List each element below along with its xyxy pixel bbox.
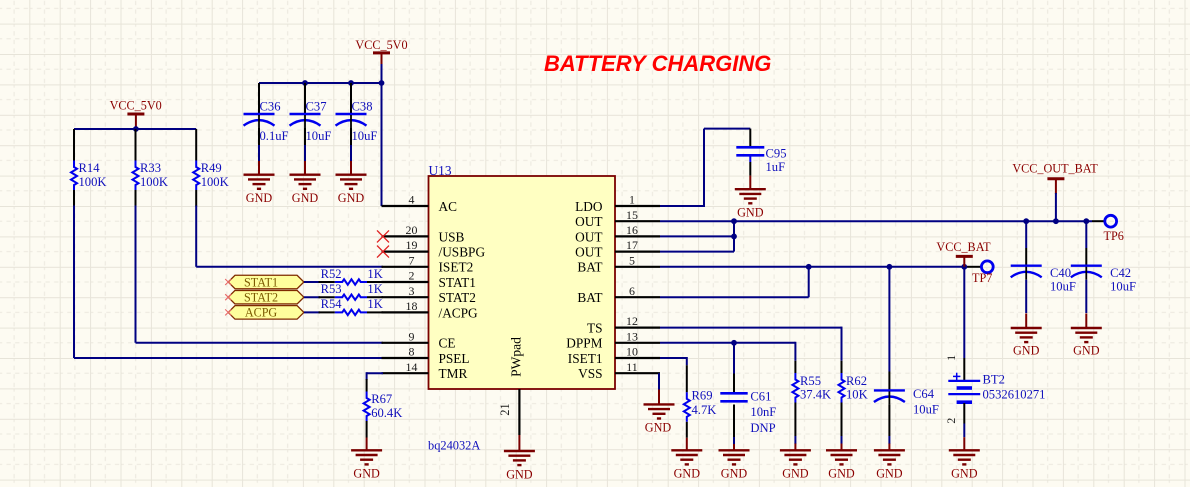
- svg-text:19: 19: [406, 238, 418, 252]
- wire R14 to PSEL pin 8: [74, 206, 383, 359]
- svg-text:VCC_BAT: VCC_BAT: [936, 240, 991, 254]
- svg-text:TP7: TP7: [972, 271, 992, 285]
- svg-text:GND: GND: [246, 191, 273, 205]
- svg-text:STAT2: STAT2: [244, 291, 278, 305]
- wire C95 top: [749, 129, 751, 148]
- svg-text:TMR: TMR: [439, 366, 468, 381]
- ground C61: [719, 444, 750, 481]
- junction C61/DPPM: [731, 340, 737, 346]
- wire C38 top: [350, 83, 352, 114]
- svg-text:C37: C37: [306, 100, 327, 114]
- wire rail R14-R33-R49 tops: [74, 128, 196, 130]
- svg-text:OUT: OUT: [575, 214, 602, 229]
- wire OUT rail pins 15-17 to TP6: [660, 220, 1105, 222]
- svg-text:60.4K: 60.4K: [371, 406, 402, 420]
- no-connect x at port STAT2: [225, 294, 231, 300]
- power VCC_5V0 (above AC pin): [355, 38, 407, 66]
- svg-text:VSS: VSS: [578, 366, 602, 381]
- svg-text:10K: 10K: [846, 388, 868, 402]
- svg-text:ACPG: ACPG: [245, 306, 278, 320]
- no-connect x at port ACPG: [225, 309, 231, 315]
- svg-text:1: 1: [629, 193, 635, 207]
- pin 18 /ACPG (left): [382, 299, 479, 320]
- svg-text:5: 5: [629, 253, 635, 267]
- svg-text:4: 4: [409, 193, 415, 207]
- junction pin16 riser: [731, 234, 737, 240]
- resistor R14 100K: [71, 129, 107, 207]
- pin 15 OUT (right): [575, 208, 660, 229]
- junction at VCC_5V0/rail: [133, 126, 139, 132]
- svg-text:R55: R55: [800, 374, 821, 388]
- svg-text:21: 21: [498, 403, 512, 415]
- ground C37: [290, 161, 321, 205]
- pin 2 BT2: [944, 418, 958, 424]
- svg-text:GND: GND: [876, 467, 903, 481]
- wire DPPM pin13 to C61 and R55: [660, 342, 795, 361]
- svg-text:R62: R62: [846, 374, 867, 388]
- svg-text:GND: GND: [828, 467, 855, 481]
- svg-text:STAT1: STAT1: [244, 275, 278, 289]
- svg-text:C61: C61: [750, 389, 771, 403]
- svg-text:0532610271: 0532610271: [983, 388, 1046, 402]
- ground C40: [1011, 313, 1042, 357]
- svg-text:37.4K: 37.4K: [800, 388, 831, 402]
- resistor R62 10K: [839, 361, 868, 444]
- svg-text:CE: CE: [439, 336, 456, 351]
- svg-text:GND: GND: [1073, 344, 1100, 358]
- junction pin6/BAT rail: [806, 264, 812, 270]
- svg-text:TS: TS: [587, 321, 603, 336]
- wire R49 to ISET2 pin 7: [196, 206, 383, 267]
- svg-text:ISET1: ISET1: [568, 351, 603, 366]
- svg-text:BATTERY CHARGING: BATTERY CHARGING: [544, 51, 771, 76]
- wire C36 top: [258, 83, 260, 114]
- svg-text:17: 17: [626, 238, 638, 252]
- wire C40 bottom: [1025, 280, 1027, 313]
- svg-text:R54: R54: [321, 297, 343, 311]
- capacitor C95 1uF: [736, 147, 786, 175]
- pin 4 AC (left): [382, 193, 458, 214]
- ground pin 21: [504, 435, 535, 481]
- resistor R69 4.7K: [684, 365, 717, 438]
- wire VSS pin11 down: [658, 373, 660, 389]
- svg-text:1K: 1K: [367, 267, 382, 281]
- svg-text:10nF: 10nF: [750, 405, 776, 419]
- svg-text:R52: R52: [321, 267, 342, 281]
- pin 1 BT2: [944, 355, 958, 361]
- wire C36 bottom: [258, 128, 260, 161]
- svg-text:1uF: 1uF: [766, 160, 786, 174]
- wire C42 bottom: [1085, 280, 1087, 313]
- svg-text:DPPM: DPPM: [566, 336, 602, 351]
- junction OUT rail at riser: [731, 218, 737, 224]
- wire C61 bottom: [733, 405, 735, 445]
- svg-text:GND: GND: [292, 191, 319, 205]
- svg-text:C36: C36: [260, 100, 281, 114]
- wire C42 riser: [1085, 221, 1087, 266]
- ground R67: [351, 438, 382, 481]
- svg-text:bq24032A: bq24032A: [428, 439, 480, 453]
- svg-text:BAT: BAT: [577, 260, 602, 275]
- capacitor C61 10nF DNP: [720, 389, 776, 435]
- svg-text:R53: R53: [321, 282, 342, 296]
- svg-text:GND: GND: [951, 467, 978, 481]
- svg-text:R67: R67: [371, 392, 392, 406]
- wire C38 bottom: [350, 128, 352, 161]
- wire BAT rail pin5 to TP7: [660, 266, 981, 268]
- svg-text:AC: AC: [439, 199, 458, 214]
- svg-text:10uF: 10uF: [1050, 280, 1076, 294]
- svg-text:4.7K: 4.7K: [692, 403, 717, 417]
- resistor R55 37.4K: [792, 361, 831, 444]
- port STAT2: [228, 290, 304, 304]
- wire BT2 bottom: [963, 403, 965, 437]
- capacitor C38 10uF: [336, 100, 378, 144]
- wire pin6 riser: [660, 267, 809, 297]
- svg-text:STAT1: STAT1: [439, 275, 476, 290]
- IC U13 bq24032A body: [428, 163, 615, 453]
- svg-text:C64: C64: [913, 387, 935, 401]
- battery BT2 0532610271: [948, 373, 1045, 403]
- pin 2 STAT1 (left): [382, 269, 476, 290]
- wire R33 to CE pin 9: [136, 206, 384, 343]
- testpoint TP6: [1104, 215, 1124, 243]
- ground C36: [244, 161, 275, 205]
- svg-text:DNP: DNP: [750, 421, 775, 435]
- svg-text:100K: 100K: [140, 175, 168, 189]
- pin 9 CE (left): [382, 329, 456, 350]
- junction BT2/BAT rail: [961, 264, 967, 270]
- svg-text:R69: R69: [692, 389, 713, 403]
- svg-text:10uF: 10uF: [913, 402, 939, 416]
- svg-text:GND: GND: [645, 421, 672, 435]
- wire C95 bottom: [749, 155, 751, 175]
- svg-text:3: 3: [409, 284, 415, 298]
- ground BT2: [949, 437, 980, 480]
- no-connect x at port STAT1: [225, 279, 231, 285]
- svg-text:C40: C40: [1050, 266, 1071, 280]
- svg-text:8: 8: [409, 345, 415, 359]
- ground R62: [826, 444, 857, 481]
- power VCC_5V0 (left): [110, 98, 162, 129]
- wire capacitor rail C36-C38: [259, 82, 382, 84]
- svg-text:GND: GND: [1013, 344, 1040, 358]
- svg-text:0.1uF: 0.1uF: [260, 129, 289, 143]
- capacitor C36 0.1uF: [244, 100, 289, 144]
- svg-text:2: 2: [944, 418, 958, 424]
- pin 20 USB (left): [382, 223, 465, 244]
- ground C42: [1071, 313, 1102, 357]
- svg-text:C38: C38: [352, 100, 373, 114]
- svg-text:BT2: BT2: [983, 373, 1005, 387]
- ground VSS: [644, 390, 675, 435]
- resistor R49 100K: [193, 129, 229, 207]
- svg-text:6: 6: [629, 284, 635, 298]
- no-connect X pin 20 USB: [377, 230, 389, 242]
- svg-text:9: 9: [409, 329, 415, 343]
- junction VCC_OUT_BAT: [1053, 218, 1059, 224]
- svg-text:2: 2: [409, 269, 415, 283]
- wire BT2 top: [963, 267, 965, 381]
- wire port STAT2 to R53: [304, 296, 320, 298]
- wire VCC_5V0 vertical to AC pin 4: [382, 64, 385, 206]
- ground C64: [874, 444, 905, 481]
- capacitor C64 10uF: [874, 387, 939, 416]
- svg-text:R33: R33: [140, 161, 161, 175]
- resistor R53 1K: [319, 282, 384, 300]
- svg-text:OUT: OUT: [575, 245, 602, 260]
- pin 5 BAT (right): [577, 253, 660, 274]
- junction C38 rail: [348, 80, 354, 86]
- svg-text:14: 14: [406, 360, 418, 374]
- resistor R52 1K: [319, 267, 384, 285]
- pin 19 /USBPG (left): [382, 238, 486, 259]
- svg-text:18: 18: [406, 299, 418, 313]
- svg-text:12: 12: [626, 314, 638, 328]
- svg-text:BAT: BAT: [577, 290, 602, 305]
- svg-text:GND: GND: [674, 467, 701, 481]
- pin 21 PWpad (bottom): [498, 389, 519, 435]
- wire C40 riser: [1025, 221, 1027, 266]
- svg-text:13: 13: [626, 329, 638, 343]
- wire C64 bottom: [888, 404, 890, 444]
- junction C40: [1023, 218, 1029, 224]
- pin 16 OUT (right): [575, 223, 660, 244]
- wire LDO pin1 to C95: [660, 129, 750, 207]
- svg-text:R49: R49: [201, 161, 222, 175]
- port STAT1: [228, 275, 304, 289]
- no-connect X pin 19 /USBPG: [377, 246, 389, 258]
- pin 17 OUT (right): [575, 238, 660, 259]
- power VCC_OUT_BAT: [1012, 161, 1098, 221]
- wire C37 top: [304, 83, 306, 114]
- svg-text:USB: USB: [439, 229, 465, 244]
- svg-text:OUT: OUT: [575, 229, 602, 244]
- pin 3 STAT2 (left): [382, 284, 476, 305]
- svg-text:1K: 1K: [367, 297, 382, 311]
- svg-text:GND: GND: [737, 206, 764, 220]
- svg-text:VCC_OUT_BAT: VCC_OUT_BAT: [1012, 161, 1098, 175]
- junction C42: [1083, 218, 1089, 224]
- svg-text:PWpad: PWpad: [509, 337, 524, 377]
- pin 6 BAT (right): [577, 284, 660, 305]
- pin 8 PSEL (left): [382, 345, 470, 366]
- capacitor C40 10uF: [1011, 266, 1076, 294]
- resistor R33 100K: [133, 129, 169, 207]
- resistor R54 1K: [319, 297, 384, 315]
- svg-text:GND: GND: [721, 467, 748, 481]
- ground R55: [780, 444, 811, 481]
- svg-text:16: 16: [626, 223, 638, 237]
- svg-text:1: 1: [944, 355, 958, 361]
- pin 10 ISET1 (right): [568, 345, 660, 366]
- pin 7 ISET2 (left): [382, 253, 474, 274]
- svg-text:GND: GND: [353, 467, 380, 481]
- svg-text:1K: 1K: [367, 282, 382, 296]
- ground R69: [671, 438, 702, 481]
- port ACPG: [228, 306, 304, 320]
- svg-text:10: 10: [626, 345, 638, 359]
- pin 1 LDO (right): [575, 193, 660, 214]
- svg-text:/ACPG: /ACPG: [439, 305, 479, 320]
- svg-text:11: 11: [626, 360, 638, 374]
- junction VCC vertical/cap rail: [379, 80, 385, 86]
- wire ISET1 pin10 to R69: [660, 357, 687, 365]
- junction C37 rail: [302, 80, 308, 86]
- wire port STAT1 to R52: [304, 281, 320, 283]
- svg-text:PSEL: PSEL: [439, 351, 470, 366]
- svg-text:C95: C95: [766, 147, 787, 161]
- resistor R67 60.4K: [364, 379, 403, 438]
- svg-text:GND: GND: [506, 467, 533, 481]
- svg-text:7: 7: [409, 253, 415, 267]
- ground C95: [735, 176, 766, 220]
- power VCC_BAT: [936, 240, 991, 267]
- wire TMR to R67: [367, 372, 383, 380]
- svg-text:/USBPG: /USBPG: [439, 245, 486, 260]
- testpoint TP7: [972, 261, 993, 285]
- capacitor C42 10uF: [1071, 266, 1136, 294]
- pin 13 DPPM (right): [566, 329, 660, 350]
- wire C64 riser: [888, 267, 890, 391]
- title BATTERY CHARGING: [544, 51, 771, 76]
- svg-text:STAT2: STAT2: [439, 290, 476, 305]
- svg-text:LDO: LDO: [575, 199, 603, 214]
- svg-text:GND: GND: [782, 467, 809, 481]
- svg-text:10uF: 10uF: [352, 129, 378, 143]
- svg-text:GND: GND: [338, 191, 365, 205]
- pin 11 VSS (right): [578, 360, 660, 381]
- ground C38: [336, 161, 367, 205]
- svg-text:100K: 100K: [201, 175, 229, 189]
- svg-text:ISET2: ISET2: [439, 260, 474, 275]
- wire TS pin12 to R62: [660, 327, 842, 361]
- svg-text:TP6: TP6: [1104, 229, 1124, 243]
- wire C37 bottom: [304, 128, 306, 161]
- svg-text:10uF: 10uF: [306, 129, 332, 143]
- svg-text:VCC_5V0: VCC_5V0: [110, 98, 162, 112]
- svg-text:R14: R14: [79, 161, 101, 175]
- svg-text:VCC_5V0: VCC_5V0: [355, 38, 407, 52]
- wire port ACPG to R54: [304, 311, 320, 313]
- svg-text:15: 15: [626, 208, 638, 222]
- svg-text:10uF: 10uF: [1110, 280, 1136, 294]
- pin 14 TMR (left): [382, 360, 468, 381]
- wire C61 riser: [733, 343, 735, 394]
- svg-text:U13: U13: [429, 163, 452, 178]
- pin 12 TS (right): [587, 314, 660, 335]
- wire pin16 to rail riser: [660, 221, 734, 251]
- svg-text:C42: C42: [1110, 266, 1131, 280]
- svg-text:100K: 100K: [79, 175, 107, 189]
- junction C64/BAT rail: [887, 264, 893, 270]
- capacitor C37 10uF: [290, 100, 332, 144]
- svg-text:20: 20: [406, 223, 418, 237]
